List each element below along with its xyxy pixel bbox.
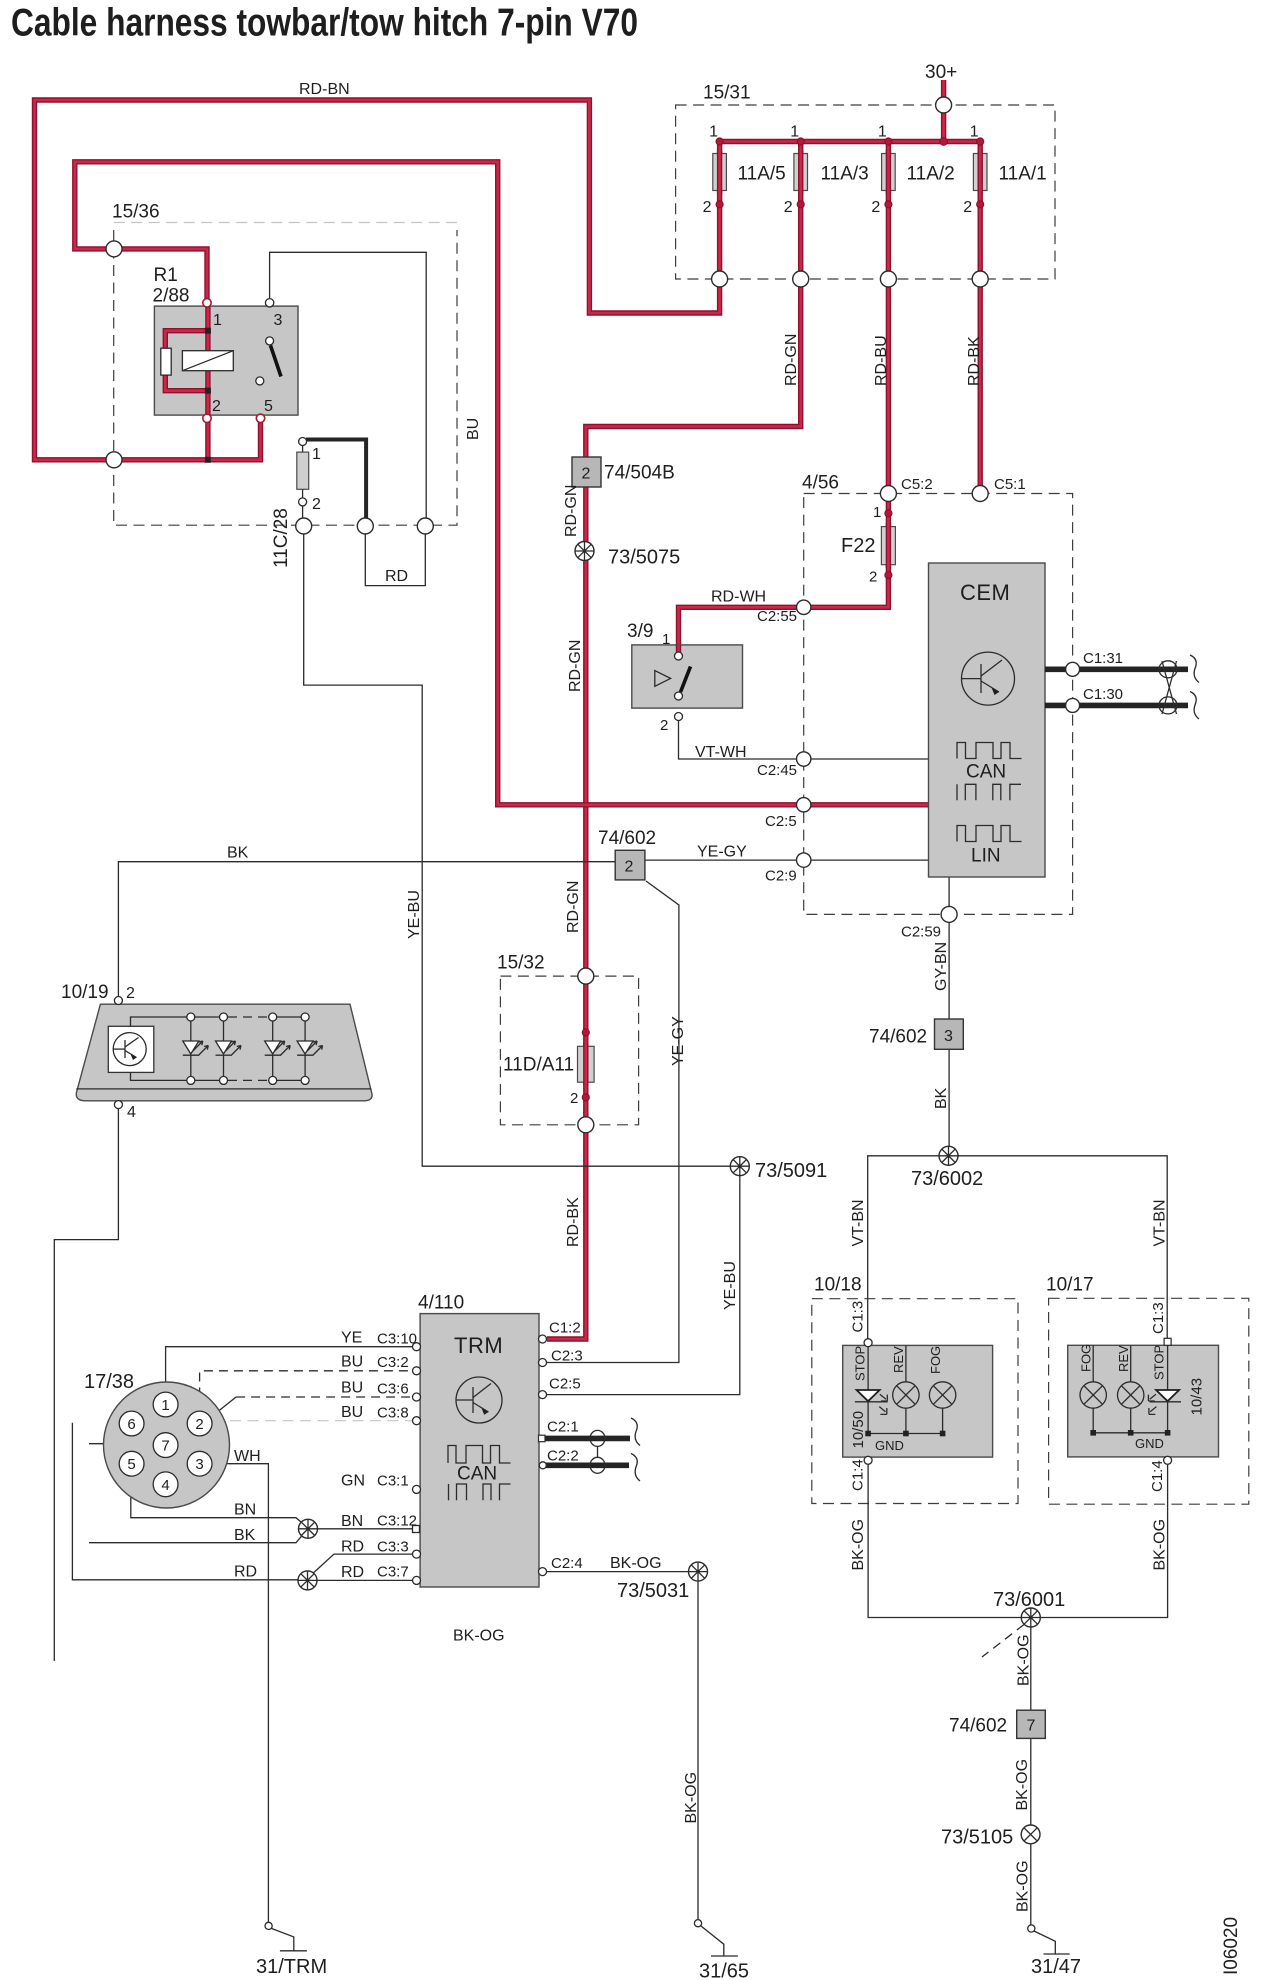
dashed box 10/18 [812,1299,1018,1504]
fuse 11C/28 body [297,452,309,489]
dashed box 10/17 [1049,1298,1249,1504]
fuse F22 pin 2 dot [885,572,892,579]
TRM CAN pulse symbol inverted [449,1484,511,1500]
dashed box 15/32 [500,976,638,1125]
wire 30+ supply bus across fuse pins 1 [720,139,981,144]
junction circle 15/36 left edge lower [106,452,122,468]
svg-text:C3:8: C3:8 [377,1405,409,1422]
TRM pin C3:10 [413,1343,421,1351]
10/19 transistor box [108,1026,154,1072]
svg-text:10/43: 10/43 [1189,1378,1206,1416]
fuse 11A/3 pin 2 dot [797,201,804,208]
svg-text:BU: BU [341,1380,363,1397]
svg-text:C2:59: C2:59 [901,924,941,941]
svg-text:73/5075: 73/5075 [608,547,680,569]
fuse F22 pin 1 dot [885,510,892,517]
wire BK stub to splice [89,1532,305,1543]
junction circle 15/32 bottom [578,1117,594,1133]
3/9 pin 2 [675,713,683,721]
10/18 GND bus [868,1433,943,1435]
svg-text:REV: REV [891,1346,906,1373]
svg-text:RD-GN: RD-GN [563,485,580,537]
svg-text:C2:45: C2:45 [757,762,797,779]
wire YE: 17/38 pin1 up and right to TRM C3:10 [166,1347,413,1392]
TRM pin C2:4 [539,1568,547,1576]
splice RD [298,1571,317,1590]
svg-text:2/88: 2/88 [153,286,190,307]
17/38 pin 7 [153,1433,178,1458]
svg-text:5: 5 [127,1456,135,1473]
junction circle C1:31 [1066,662,1080,676]
wire BU: 17/38 pin2 diagonal and dashed to TRM C3:6 [211,1397,236,1417]
wire RD: stub down, right to splice 2 [72,1423,297,1580]
svg-text:3/9: 3/9 [627,621,653,642]
connector 74/504B square pin 2 [572,457,601,487]
relay internal junction dots [205,328,211,334]
wire BK: 10/19 pin2 up and right to 74/602 pin2 [118,862,615,997]
splice 73/6001 [1021,1608,1040,1627]
relay switch blade [271,346,282,377]
splice 73/5031 [689,1562,708,1581]
wire RD-WH into 3/9 pin 1 [676,645,681,652]
lamp unit 10/19 body [76,1004,372,1101]
svg-text:BK-OG: BK-OG [1016,1634,1033,1686]
thick wire CEM C1:30 [1045,703,1188,709]
fuse 11A/3 body [794,154,808,191]
relay pin 2 [203,414,211,422]
junction circle C1:30 [1066,698,1080,712]
CEM module body [929,563,1046,877]
svg-text:73/6002: 73/6002 [911,1168,983,1190]
connector 17/38 body [104,1382,230,1508]
svg-text:7: 7 [161,1438,169,1455]
17/38 pin 5 [119,1451,144,1476]
svg-text:1: 1 [312,446,321,463]
wire RD-BU: 11A/2 down to C5:2, through F22, RD-WH across to 3/9 pin 1 [679,142,889,653]
10/19 inner bottom line [76,1088,371,1090]
TRM pin C3:1 [413,1485,421,1493]
wire YE-GY drop: 74/602 corner diagonal down to vertical, down, left into TRM C2:3 [547,881,679,1363]
wire BN: splice to TRM C3:12 [308,1528,413,1530]
svg-text:C3:2: C3:2 [377,1354,409,1371]
svg-text:15/31: 15/31 [703,83,751,104]
svg-text:1: 1 [873,504,881,521]
svg-text:10/19: 10/19 [61,982,109,1003]
svg-text:RD-BK: RD-BK [565,1197,582,1247]
connector 74/602 square pin 2 [615,850,645,880]
svg-text:3: 3 [944,1028,953,1045]
10/18 STOP LED wire [867,1347,869,1390]
CEM LIN pulse symbol [957,826,1022,842]
svg-text:2: 2 [871,199,880,216]
svg-text:C1:30: C1:30 [1083,686,1123,703]
svg-text:C2:4: C2:4 [551,1555,583,1572]
fuse 11A/2 body [882,154,896,191]
svg-text:74/602: 74/602 [949,1716,1007,1737]
wire VT-BN pair: splice 73/6002 horizontal, down both sides to lamp units [868,1156,1167,1339]
10/17 STOP LED wire [1167,1345,1169,1390]
10/17 pin C1:3 [1164,1338,1171,1345]
svg-text:2: 2 [784,199,793,216]
ground 31/65 [694,1920,738,1956]
relay pin 1 [203,299,211,307]
10/18 STOP LED symbol [855,1390,888,1414]
svg-text:30+: 30+ [925,62,957,83]
svg-text:CEM: CEM [960,580,1010,605]
svg-text:2: 2 [195,1416,203,1433]
10/19 LED 4 [297,1013,323,1084]
splice 73/5105 (X type) [1021,1825,1040,1844]
TRM pin C1:2 [539,1335,547,1343]
10/17 pin C1:4 [1164,1456,1172,1464]
svg-text:1: 1 [213,312,222,329]
svg-text:BK-OG: BK-OG [1015,1860,1032,1912]
svg-text:C1:2: C1:2 [549,1320,581,1337]
CEM CAN pulse symbol inverted [957,784,1021,800]
wire YE-BU: 11C/28 junction down, right, down, right to splice 73/5091, down, left into TRM C2:5 [304,534,740,1395]
wire 17/38 pin7 stub left [89,1443,154,1445]
svg-text:2: 2 [312,496,321,513]
fuse 11A/5 body [713,154,727,191]
svg-text:C3:1: C3:1 [377,1473,409,1490]
wire BK-OG lamp grounds: C1:4 drops joined at bottom, splice 73/6001 [868,1457,1168,1617]
svg-text:31/65: 31/65 [699,1961,749,1980]
svg-text:BU: BU [341,1404,363,1421]
TRM transistor symbol [456,1377,502,1423]
10/19 pin 2 [114,997,122,1005]
17/38 pin 1 [153,1392,178,1417]
svg-text:GN: GN [341,1473,365,1490]
svg-text:I06020: I06020 [1221,1917,1242,1975]
svg-text:31/47: 31/47 [1031,1956,1081,1978]
wire VT-WH: 3/9 pin2 down and right through C2:45 into CEM [679,721,929,760]
dashed box 15/36 (left edge, right edge, bottom edge black; top edge light) [114,230,457,525]
switch 3/9 body [632,645,743,708]
svg-text:RD-WH: RD-WH [711,589,766,606]
lamp unit 10/18 gray body [843,1345,993,1457]
10/19 LED 3 [265,1013,291,1084]
relay pin 3 [265,299,273,307]
svg-text:TRM: TRM [454,1333,503,1358]
svg-text:BK-OG: BK-OG [610,1555,662,1572]
svg-text:YE-BU: YE-BU [722,1261,739,1310]
svg-text:2: 2 [212,398,221,415]
junction circle 11A/3 bottom edge [793,271,809,287]
svg-text:1: 1 [970,124,979,141]
wire 11C/28 pin2 stub down to junction [302,506,304,518]
svg-text:4/110: 4/110 [418,1293,464,1314]
svg-text:73/5105: 73/5105 [941,1827,1013,1849]
splice 73/6002 [939,1146,958,1165]
TRM pin C3:2 [413,1367,421,1375]
wire relay coil loop (pin1 to pin2 through coil resistor) [165,303,208,420]
wire RD-GN: 11A/3 down, across, down through 74/504B, 73/5075, 15/32 fuse 11D/A11, then RD-BK to TRM C1:2 [547,142,801,1340]
junction circle C2:9 [797,853,811,867]
3/9 switch blade [681,667,691,693]
svg-text:1: 1 [161,1397,169,1414]
junction circle C2:59 [941,906,957,922]
3/9 switch contact bottom [675,692,683,700]
connector 74/602 square pin 3 [935,1019,964,1049]
svg-text:C1:4: C1:4 [850,1459,867,1491]
svg-text:73/5091: 73/5091 [755,1160,827,1182]
svg-text:FOG: FOG [928,1346,943,1374]
TRM CAN pulse symbol [448,1446,511,1464]
svg-text:4: 4 [161,1477,169,1494]
wire BU: relay pin1 up, left, up, right, down long run, right into CEM C2:5 [75,162,929,805]
wire RD-BN main run: 11A/5 pin2 down, left, up, far left, down left edge, bottom bus to relay pins 2 and 5 [35,100,720,460]
svg-text:GY-BN: GY-BN [933,942,950,991]
svg-text:1: 1 [790,124,799,141]
svg-text:3: 3 [195,1456,203,1473]
wire BK-OG: TRM C2:4 right to splice 73/5031 and down to ground 31/65 [547,1572,698,1920]
svg-text:R1: R1 [154,265,178,286]
svg-text:VT-BN: VT-BN [850,1199,867,1246]
svg-text:31/TRM: 31/TRM [256,1956,327,1978]
svg-text:11A/5: 11A/5 [738,164,786,185]
svg-text:C2:9: C2:9 [765,868,797,885]
lamp unit 10/17 gray body [1068,1345,1219,1457]
svg-text:BK-OG: BK-OG [683,1772,700,1824]
svg-text:RD-BU: RD-BU [873,335,890,386]
svg-text:CAN: CAN [966,762,1006,783]
svg-text:F22: F22 [841,535,875,557]
fuse 11A/1 pin 1 dot [977,138,984,145]
CEM CAN pulse symbol [957,743,1022,759]
junction circle 11A/1 bottom edge [972,271,988,287]
TRM pin C3:12 [413,1526,420,1533]
junction circle C5:1 [972,486,988,502]
svg-text:2: 2 [582,466,591,483]
svg-text:GND: GND [875,1438,904,1453]
TRM pin C2:5 [539,1391,547,1399]
fuse 11D/A11 pin 2 dot [582,1094,589,1101]
TRM pin C3:7 [413,1576,421,1584]
fuse 11A/2 pin 2 dot [885,201,892,208]
svg-text:74/504B: 74/504B [604,463,675,484]
svg-text:C1:3: C1:3 [850,1301,867,1333]
CEM transistor symbol [962,652,1015,705]
svg-text:10/18: 10/18 [814,1275,862,1296]
svg-text:11A/1: 11A/1 [999,164,1047,185]
fuse 11D/A11 pin 1 dot [582,1029,589,1036]
wire fuse 11A/5 feed from bus [717,142,722,280]
thick wire TRM C2:1 [540,1436,630,1442]
17/38 pin 2 [187,1411,212,1436]
wire BU dashed: 17/38 pin2 up, right to TRM C3:2 [200,1371,413,1412]
svg-text:10/50: 10/50 [850,1411,867,1449]
svg-text:C2:55: C2:55 [757,608,797,625]
10/17 STOP LED symbol [1148,1390,1181,1414]
junction circle 11A/5 bottom edge [712,271,728,287]
10/19 LED 2 [216,1013,242,1084]
svg-text:C1:3: C1:3 [1150,1302,1167,1334]
wire GY-BN/BK: CEM bottom through C2:59, 74/602 pin3 to splice 73/6002 [948,877,950,1156]
10/17 STOP to GND wire [1167,1402,1169,1433]
svg-text:BK: BK [933,1087,950,1109]
junction circle middle (thick BK wire) [357,518,373,534]
svg-text:C3:12: C3:12 [377,1513,417,1530]
10/19 LED 1 [183,1013,209,1084]
svg-text:C2:2: C2:2 [547,1448,579,1465]
wire 10/19 pin4 down, left, down (stub) [54,1109,118,1661]
svg-text:73/5031: 73/5031 [617,1580,689,1602]
wire BN: 17/38 pin5 down, right to splice [131,1477,305,1526]
svg-text:STOP: STOP [1152,1345,1167,1380]
dashed box 4/56 [804,494,1073,915]
ground 31/TRM [265,1922,307,1951]
fuse F22 body [881,527,895,565]
10/17 REV lamp [1118,1345,1144,1433]
wire RD: splice2 to TRM C3:7 [314,1579,413,1581]
TRM pin C3:8 [413,1417,421,1425]
wire relay pin3 up/right/down to 15/36 bottom junction [270,252,427,518]
dashed box 15/31 [676,105,1055,279]
svg-text:BK-OG: BK-OG [1014,1759,1031,1811]
svg-text:C3:6: C3:6 [377,1381,409,1398]
3/9 switch contact top [675,652,683,660]
svg-text:73/6001: 73/6001 [993,1589,1065,1611]
svg-text:GND: GND [1135,1436,1164,1451]
thick wire CEM C1:31 [1045,666,1188,672]
10/18 REV lamp [893,1345,919,1433]
svg-text:RD: RD [341,1564,364,1581]
fuse 11C/28 pin 2 [299,498,307,506]
svg-text:7: 7 [1027,1718,1036,1735]
10/18 pin C1:4 [864,1456,872,1464]
svg-text:YE-GY: YE-GY [670,1016,687,1066]
svg-text:CAN: CAN [457,1464,497,1485]
svg-text:Cable harness towbar/tow hitch: Cable harness towbar/tow hitch 7-pin V70 [11,2,638,45]
10/19 LED bus bottom [131,1072,229,1080]
relay pin 5 [256,414,264,422]
svg-text:C1:4: C1:4 [1149,1460,1166,1492]
twisted pair symbol (CEM CAN) [1159,655,1199,719]
thick wire 11C/28 pin1 to junction under 15/36 [306,440,366,520]
junction circle C5:2 [880,486,896,502]
relay switch contact circle (pin3 side) [266,337,274,345]
wire WH: 17/38 pin3 right and down to ground 31/TRM [212,1464,268,1923]
svg-text:2: 2 [660,717,668,734]
junction circle C2:5 [797,798,811,812]
wire RD loop joining 15/36 bottom junctions [365,534,425,586]
17/38 pin 3 [187,1451,212,1476]
junction circle 11A/2 bottom edge [880,271,896,287]
relay R1 2/88 body [154,306,298,415]
17/38 pin 6 [119,1411,144,1436]
fuse 11A/1 pin 2 dot [977,201,984,208]
svg-text:2: 2 [869,569,877,586]
wire 30+ drop [941,80,946,142]
connector 74/602 square pin 7 [1017,1710,1046,1738]
svg-text:REV: REV [1116,1345,1131,1372]
svg-text:C1:31: C1:31 [1083,650,1123,667]
svg-text:5: 5 [264,398,273,415]
svg-text:RD-GN: RD-GN [567,640,584,692]
svg-text:BK-OG: BK-OG [453,1628,505,1645]
junction dot 30+ on supply bus [940,138,948,146]
svg-text:FOG: FOG [1079,1344,1094,1372]
splice 73/5091 [730,1157,749,1176]
TRM pin C2:3 [539,1359,547,1367]
svg-text:2: 2 [570,1090,578,1107]
svg-text:RD: RD [341,1539,364,1556]
svg-text:VT-WH: VT-WH [695,744,747,761]
svg-text:4/56: 4/56 [802,473,839,494]
wire YE-GY: 74/602 pin2 right through C2:9 into CEM [645,859,929,861]
17/38 pin 4 [153,1472,178,1497]
junction circle right (relay pin3 wire) [417,518,433,534]
svg-text:BK: BK [227,845,249,862]
svg-text:LIN: LIN [971,846,1001,867]
svg-text:10/17: 10/17 [1046,1275,1094,1296]
svg-text:C3:10: C3:10 [377,1331,417,1348]
junction circle C2:55 [797,600,811,614]
svg-text:2: 2 [963,199,972,216]
TRM pin C2:1 (square) [539,1435,546,1442]
svg-text:BU: BU [341,1354,363,1371]
wire relay pin2 stub to RD-BN bus [205,414,210,460]
wire stub dashed at 73/6001 [982,1625,1024,1658]
svg-text:RD-GN: RD-GN [783,334,800,386]
fuse 11A/1 body [973,154,987,191]
fuse 11C/28 pin 1 [299,438,307,446]
fuse 11A/2 pin 1 dot [885,138,892,145]
junction circle C2:45 [797,752,811,766]
svg-text:C2:3: C2:3 [551,1348,583,1365]
wire BU faint dashed to TRM C3:8 [230,1420,413,1422]
ground 31/47 [1028,1925,1070,1954]
svg-text:C2:5: C2:5 [765,813,797,830]
svg-text:1: 1 [662,631,670,648]
junction circle 15/32 top [578,968,594,984]
svg-text:6: 6 [127,1416,135,1433]
fuse 11A/3 pin 1 dot [797,138,804,145]
svg-text:C5:1: C5:1 [994,476,1026,493]
svg-text:11D/A11: 11D/A11 [503,1055,574,1076]
10/19 LED bus top [131,1017,229,1026]
10/19 pin 4 [114,1101,122,1109]
svg-text:C3:7: C3:7 [377,1564,409,1581]
fuse 11D/A11 body [578,1046,595,1082]
wire BK-OG: splice 73/6001 down through 74/602 pin7 and 73/5105 to ground 31/47 [1030,1618,1032,1925]
svg-text:BK-OG: BK-OG [1152,1519,1169,1571]
fuse 11A/5 pin 2 dot [716,201,723,208]
svg-text:VT-BN: VT-BN [1152,1199,1169,1246]
svg-text:RD-GN: RD-GN [565,881,582,933]
svg-text:YE-BU: YE-BU [406,890,423,939]
junction circle 15/36 left edge upper [106,241,122,257]
relay switch contact circle (pin5 side) [256,377,264,385]
svg-text:RD: RD [385,568,408,585]
svg-text:15/36: 15/36 [112,202,160,223]
relay coil box with diagonal [182,351,233,371]
svg-text:1: 1 [709,124,718,141]
svg-text:YE: YE [341,1330,362,1347]
splice BN/BK [299,1519,318,1538]
svg-text:11C/28: 11C/28 [271,508,292,568]
svg-text:BN: BN [341,1513,363,1530]
svg-text:4: 4 [127,1104,136,1121]
svg-text:BU: BU [465,418,482,440]
svg-text:74/602: 74/602 [598,828,656,849]
svg-text:WH: WH [234,1448,261,1465]
svg-text:YE-GY: YE-GY [697,844,747,861]
TRM pin C2:2 [539,1462,546,1469]
dashed box 15/36 top edge (faint) [114,222,457,224]
junction circle under 11C/28 [296,518,312,534]
10/18 pin C1:3 [864,1339,872,1347]
